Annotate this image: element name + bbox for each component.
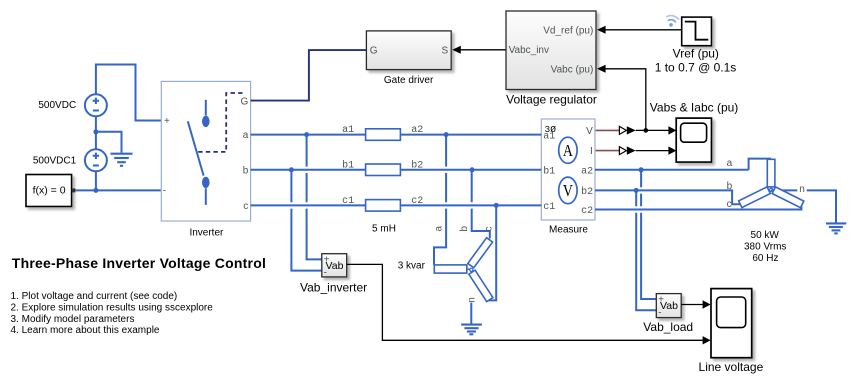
svg-text:-: -: [324, 267, 327, 278]
wire: phase a tap down to Vab_inverter +: [307, 135, 322, 260]
wire: phase b tap down to Vab_inverter -: [291, 170, 321, 271]
ground (50 kW): [826, 223, 846, 233]
ground (left): [111, 154, 133, 166]
PS-Simulink converter I: [619, 147, 626, 155]
svg-text:c: c: [243, 201, 248, 212]
svg-text:Vab_inverter: Vab_inverter: [300, 281, 367, 295]
svg-text:-: -: [163, 186, 166, 197]
dashed gate line inside Inverter: [197, 93, 243, 152]
wire: b2 tap down to Vab_load -: [636, 190, 656, 310]
wire: 3 kvar neutral to ground: [470, 303, 472, 325]
voltage sensor Vab_inverter: [322, 254, 347, 279]
node V signal branch: [644, 128, 649, 133]
wire: Measure I output (physical): [595, 150, 619, 152]
svg-text:b: b: [459, 226, 470, 232]
wire: 500VDC1 minus to bottom rail: [95, 171, 97, 190]
svg-text:50 kW: 50 kW: [751, 230, 780, 241]
node phase b tap to 3 kvar load: [470, 167, 475, 172]
resistor 50 kW phase b: [739, 187, 771, 208]
svg-text:n: n: [799, 184, 805, 195]
wire: phase b Inverter to inductor: [251, 169, 366, 171]
svg-text:a: a: [243, 130, 249, 141]
arrowhead after converter I: [627, 146, 636, 154]
step source Vref: [682, 17, 712, 46]
svg-text:Gate driver: Gate driver: [384, 75, 434, 86]
svg-text:c: c: [483, 227, 494, 232]
wire: phase a down to 3 kvar terminal a: [434, 135, 446, 265]
subsystem Voltage regulator: [506, 11, 596, 90]
voltage source 500VDC: [85, 94, 107, 116]
svg-text:Vabs & Iabc (pu): Vabs & Iabc (pu): [650, 100, 739, 114]
node between sources: [93, 129, 98, 134]
svg-text:S: S: [442, 46, 449, 57]
wire: bottom rail to Inverter - port: [75, 189, 161, 191]
svg-text:Vabc (pu): Vabc (pu): [551, 65, 594, 76]
subsystem Inverter: [161, 81, 250, 221]
svg-text:1. Plot voltage and current (s: 1. Plot voltage and current (see code): [11, 291, 178, 302]
tunable wireless icon: [664, 14, 679, 28]
wire: a2 row Measure to 50 kW load: [595, 159, 771, 170]
svg-text:b: b: [727, 181, 733, 192]
node bottom rail: [93, 188, 98, 193]
wire: phase a inductor to Measure a1: [400, 134, 541, 136]
svg-text:+: +: [658, 295, 664, 306]
svg-text:a2: a2: [581, 166, 593, 177]
wire: node to ground: [96, 132, 122, 153]
svg-text:1 to 0.7 @ 0.1s: 1 to 0.7 @ 0.1s: [655, 61, 737, 75]
svg-text:G: G: [370, 46, 378, 57]
subsystem Gate driver: [366, 31, 451, 70]
node b2 tap to Vab_load: [634, 188, 639, 193]
svg-text:c2: c2: [411, 196, 423, 207]
wire: phase c inductor to Measure c1: [400, 204, 541, 206]
svg-text:G: G: [241, 97, 249, 108]
svg-text:Voltage regulator: Voltage regulator: [506, 92, 597, 106]
node phase a tap to 3 kvar load: [444, 132, 449, 137]
svg-text:a1: a1: [543, 131, 555, 142]
wire: Vab_inverter output to Line voltage scope: [347, 264, 711, 344]
wire: Vref to Vd_ref input: [597, 26, 682, 34]
svg-text:c: c: [727, 199, 732, 210]
wire: I signal to scope: [636, 150, 669, 152]
wire: a2 tap down to Vab_load +: [641, 170, 656, 299]
node 3 kvar star centre: [467, 268, 473, 271]
resistor 3 kvar phase a: [434, 265, 467, 273]
svg-text:c1: c1: [342, 196, 354, 207]
wire: 500VDC plus terminal to Inverter + port: [96, 65, 161, 121]
svg-text:V: V: [586, 126, 593, 137]
svg-text:c1: c1: [543, 202, 555, 213]
svg-text:3 kvar: 3 kvar: [398, 260, 426, 271]
wire: Measure V output (physical): [595, 129, 619, 131]
node phase b tap to Vab_inverter: [289, 167, 294, 172]
scope Line voltage: [711, 289, 752, 358]
inductor phase c: [366, 200, 401, 212]
svg-text:Vd_ref (pu): Vd_ref (pu): [543, 25, 593, 36]
wire: between sources: [95, 116, 97, 149]
wire: phase b down to 3 kvar terminal b: [472, 170, 490, 239]
svg-text:b1: b1: [543, 165, 555, 177]
svg-text:c2: c2: [581, 206, 593, 217]
node a2 tap to Vab_load: [639, 167, 644, 172]
svg-text:Line voltage: Line voltage: [699, 360, 764, 374]
svg-text:4. Learn more about this examp: 4. Learn more about this example: [11, 325, 160, 336]
voltage source 500VDC1: [85, 149, 107, 171]
inductor phase a: [366, 129, 401, 141]
svg-text:3. Modify model parameters: 3. Modify model parameters: [11, 314, 135, 325]
wire: Vabc branch up to Vabc (pu) input: [597, 65, 646, 131]
svg-text:b2: b2: [581, 186, 593, 198]
switch symbol inside Inverter: [188, 100, 210, 205]
svg-text:Measure: Measure: [549, 225, 588, 236]
svg-text:2. Explore simulation results: 2. Explore simulation results using ssce…: [11, 303, 214, 314]
resistor 50 kW phase a: [767, 159, 775, 187]
wire: phase a Inverter to inductor: [251, 134, 366, 136]
node phase c tap to 3 kvar load: [494, 203, 499, 208]
svg-text:b: b: [243, 165, 249, 176]
label n (50 kW): [797, 184, 806, 195]
resistor 50 kW phase c: [772, 187, 804, 208]
svg-text:+: +: [164, 116, 170, 127]
inductor phase b: [366, 164, 401, 176]
wire: phase b inductor to Measure b1: [400, 169, 541, 171]
resistor 3 kvar phase c: [469, 270, 493, 301]
svg-text:V: V: [563, 181, 574, 200]
arrowhead after converter V: [627, 126, 636, 134]
svg-text:Vabc_inv: Vabc_inv: [509, 45, 549, 56]
resistor 3 kvar phase b: [468, 238, 493, 268]
svg-text:a2: a2: [411, 125, 423, 136]
wire: Voltage regulator Vabc_inv to Gate driver S: [452, 46, 506, 54]
wire: 50 kW neutral to ground: [771, 190, 836, 223]
svg-text:a: a: [433, 226, 444, 232]
svg-text:5 mH: 5 mH: [372, 224, 396, 235]
three-phase block Measure: [541, 119, 595, 220]
wire: b2 row Measure to 50 kW load: [595, 190, 740, 204]
svg-text:500VDC: 500VDC: [38, 100, 76, 111]
ground (3 kvar): [461, 325, 482, 335]
solver block f(x)=0: [26, 175, 75, 207]
svg-text:A: A: [563, 141, 574, 160]
svg-text:Vab_load: Vab_load: [643, 320, 693, 334]
node 50 kW star centre: [770, 187, 773, 192]
PS-Simulink converter V: [619, 126, 626, 134]
svg-text:60 Hz: 60 Hz: [752, 253, 778, 264]
svg-text:+: +: [324, 255, 330, 266]
svg-text:I: I: [590, 146, 593, 157]
svg-text:Three-Phase Inverter Voltage C: Three-Phase Inverter Voltage Control: [12, 255, 266, 271]
wire: phase c Inverter to inductor: [251, 204, 366, 206]
svg-text:Inverter: Inverter: [189, 227, 224, 238]
svg-text:500VDC1: 500VDC1: [33, 156, 77, 167]
wire: Inverter G to Gate driver: [251, 50, 367, 101]
wire: phase c down to 3 kvar terminal c: [488, 205, 497, 300]
scope Vabs & Iabc: [676, 118, 711, 162]
svg-text:-: -: [658, 308, 661, 319]
svg-text:Vref (pu): Vref (pu): [673, 46, 719, 60]
svg-text:380 Vrms: 380 Vrms: [744, 241, 786, 252]
svg-text:b2: b2: [411, 159, 423, 171]
svg-text:b1: b1: [342, 159, 354, 171]
wire: c2 row Measure to 50 kW load: [595, 205, 801, 210]
wire: V signal to scope: [636, 129, 669, 131]
voltage sensor Vab_load: [656, 294, 681, 319]
svg-text:f(x) = 0: f(x) = 0: [33, 184, 66, 196]
svg-text:a1: a1: [342, 125, 354, 136]
svg-text:n: n: [466, 297, 477, 303]
wire: Vab_load output to Line voltage scope: [681, 300, 710, 308]
node phase a tap to Vab_inverter: [304, 132, 309, 137]
svg-text:a: a: [727, 158, 733, 169]
